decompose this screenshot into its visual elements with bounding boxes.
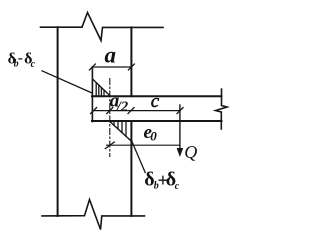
leader line to top label — [42, 71, 92, 93]
tick at wall inner face — [128, 108, 134, 114]
dimension line e0 — [107, 144, 180, 146]
beam bottom line — [92, 120, 222, 122]
wall top break line — [41, 13, 164, 41]
resultant dash-dot line — [109, 79, 111, 157]
wall inner face upper (right vertical above beam) — [130, 27, 132, 96]
svg-text:-: - — [18, 51, 23, 67]
dimension line a/2 and c — [92, 110, 180, 112]
svg-text:c: c — [31, 59, 36, 70]
tick a left — [89, 64, 95, 70]
Q force line — [179, 105, 181, 149]
beam right end break — [216, 89, 228, 129]
wall outer face (left vertical) — [57, 27, 59, 216]
tick at Q line — [177, 108, 183, 114]
tick a right — [128, 64, 134, 70]
bottom stress triangle hypotenuse — [110, 122, 132, 142]
svg-text:a: a — [105, 43, 117, 68]
svg-text:Q: Q — [184, 142, 197, 162]
svg-text:/2: /2 — [116, 99, 128, 115]
svg-text:c: c — [151, 91, 160, 112]
wall bottom break line — [42, 200, 145, 230]
beam left end / witness line — [91, 67, 93, 122]
svg-text:c: c — [175, 181, 180, 192]
dimension line a — [92, 66, 131, 68]
tick e0 left — [105, 142, 114, 149]
top triangle hatch — [95, 83, 97, 96]
svg-text:0: 0 — [150, 129, 157, 144]
leader line to bottom label — [132, 141, 146, 173]
tick at resultant line — [107, 108, 113, 114]
top stress triangle hypotenuse — [93, 79, 111, 96]
beam top line — [92, 95, 222, 97]
wall inner face lower (right vertical below beam) — [130, 121, 132, 216]
bottom triangle hatch — [113, 122, 115, 126]
Q arrow head — [177, 148, 184, 157]
tick at beam end — [91, 108, 97, 114]
